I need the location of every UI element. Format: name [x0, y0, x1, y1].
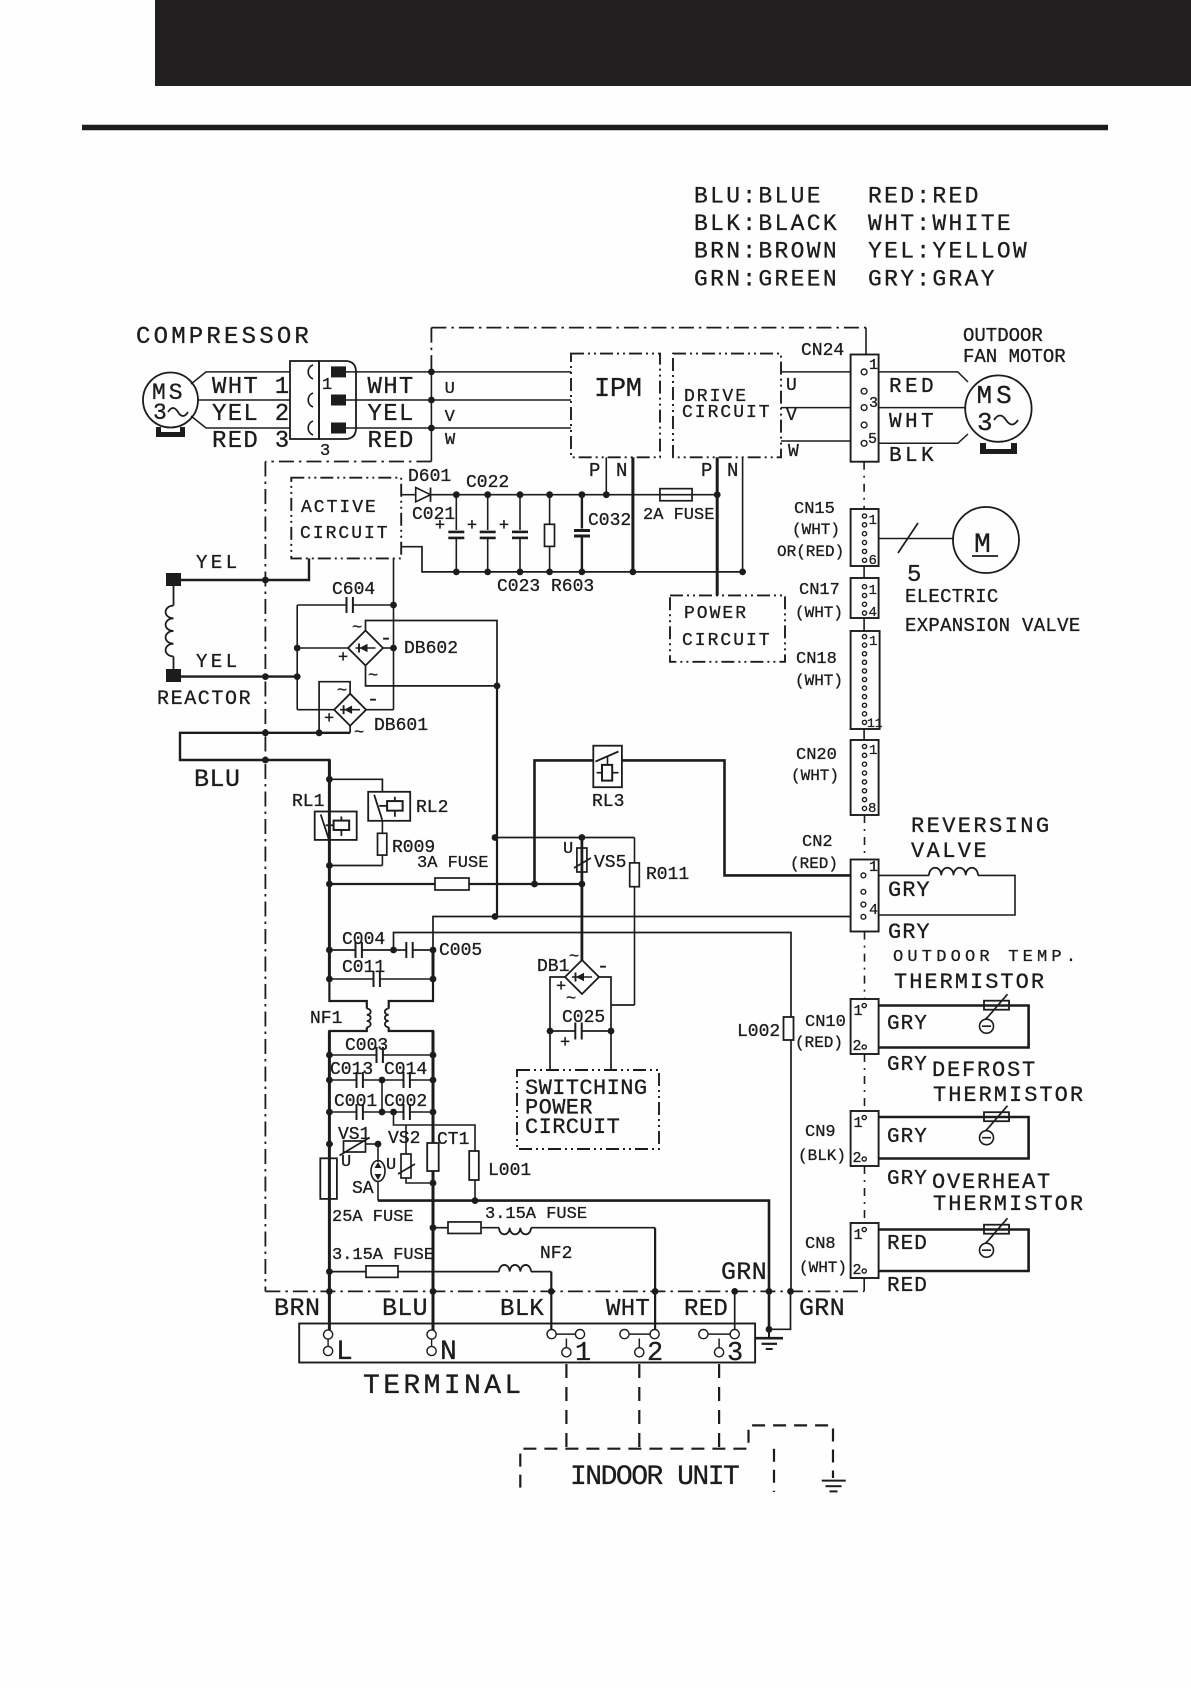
outdoor temp thermistor labels: [893, 948, 1080, 995]
svg-text:1: 1: [869, 357, 878, 374]
wire connector to U node: [346, 371, 571, 373]
svg-text:ELECTRIC: ELECTRIC: [905, 586, 999, 608]
label GRY CN9-1: [887, 1126, 928, 1149]
terminal 2: [620, 1330, 663, 1370]
wire drive to CN24 V: [781, 406, 851, 426]
wire C013/C014 mid drop: [381, 1080, 383, 1112]
capacitor C013: [326, 1060, 385, 1088]
resistor R603: [545, 491, 555, 575]
reactor coil: [166, 586, 174, 669]
diode D601: [401, 467, 455, 525]
svg-text:WHT: WHT: [606, 1296, 650, 1323]
label YEL top: [196, 552, 241, 574]
svg-text:BLK:BLACK: BLK:BLACK: [694, 211, 839, 237]
wire compressor V phase: [198, 399, 290, 401]
svg-text:L002: L002: [737, 1022, 780, 1042]
wire GRN ground drop: [766, 1288, 794, 1333]
svg-text:(RED): (RED): [790, 855, 838, 873]
varistor VS2: [386, 1125, 436, 1186]
svg-text:C021: C021: [412, 505, 455, 525]
capacitor C023 electrolytic: [499, 491, 528, 575]
svg-text:NF1: NF1: [310, 1009, 342, 1029]
svg-text:4: 4: [869, 605, 877, 621]
svg-text:P: P: [701, 460, 712, 482]
svg-text:3A FUSE: 3A FUSE: [417, 854, 488, 873]
svg-text:(RED): (RED): [795, 1034, 843, 1052]
svg-text:1: 1: [854, 1003, 863, 1020]
svg-text:1: 1: [322, 376, 332, 395]
node V: [428, 397, 456, 427]
relay RL1: [292, 792, 357, 840]
label YEL right: [368, 401, 415, 428]
L002 choke: [737, 1017, 794, 1042]
thermistor outdoor temp loop: [879, 994, 1029, 1047]
svg-text:(WHT): (WHT): [795, 672, 843, 690]
connector CN8: [799, 1223, 879, 1279]
svg-text:N: N: [727, 460, 738, 482]
wire CN24 pin1 to fan RED: [879, 372, 968, 382]
svg-text:~: ~: [352, 619, 362, 638]
wire DB1 right vertex to R011: [599, 977, 635, 1070]
svg-text:DEFROST: DEFROST: [932, 1058, 1037, 1083]
terminal 1: [547, 1330, 591, 1370]
label BLU: [194, 765, 241, 794]
wire to CT1/L001 branch: [394, 1112, 476, 1151]
svg-text:1: 1: [869, 859, 878, 876]
wire DB1 left vertex down: [550, 977, 565, 1070]
terminal L: [324, 1330, 353, 1368]
svg-text:3: 3: [153, 400, 167, 426]
svg-text:GRY: GRY: [888, 878, 931, 903]
label WHT: [606, 1296, 650, 1323]
svg-text:IPM: IPM: [594, 375, 642, 405]
boundary outdoor control board (dash-dot): [265, 328, 866, 1292]
svg-text:~: ~: [569, 948, 579, 967]
svg-text:THERMISTOR: THERMISTOR: [933, 1083, 1085, 1108]
wire DB602 top vertex loop: [366, 621, 498, 686]
capacitor C004: [326, 930, 397, 958]
svg-text:C032: C032: [588, 511, 631, 531]
wire IPM N: [630, 457, 637, 575]
wire DB601 top vertex loop: [316, 682, 350, 736]
svg-text:~: ~: [368, 667, 378, 686]
indoor unit dashed box: [520, 1425, 833, 1492]
svg-text:MS: MS: [977, 381, 1016, 411]
svg-text:2: 2: [647, 1339, 663, 1369]
wire DB601 bottom vertex: [349, 726, 351, 733]
svg-text:1: 1: [869, 743, 877, 759]
svg-text:CN20: CN20: [796, 746, 837, 765]
svg-text:+: +: [338, 649, 348, 668]
line filter NF1: [310, 979, 433, 1055]
capacitor C011: [326, 958, 436, 987]
dash-dot link CN20 to CN2: [864, 815, 866, 860]
svg-text:1: 1: [869, 634, 877, 650]
svg-text:GRY: GRY: [887, 1013, 928, 1036]
wire VS5 node top: [492, 834, 635, 841]
svg-text:C013: C013: [330, 1060, 373, 1080]
wire SA bottom rail to ground: [378, 1201, 769, 1330]
dashed wire terminal3 to indoor: [718, 1364, 720, 1449]
motor MS 3~ compressor: [143, 373, 198, 428]
svg-text:3: 3: [320, 442, 330, 461]
wire VS5 vertical: [581, 838, 584, 961]
svg-text:P: P: [589, 460, 600, 482]
label NF2: [540, 1244, 572, 1264]
wire left AC node vertical: [294, 605, 301, 710]
svg-text:+: +: [324, 710, 334, 729]
svg-text:YEL: YEL: [196, 651, 241, 673]
svg-text:C023 R603: C023 R603: [497, 577, 594, 597]
wire RL3 left to 3A fuse line: [535, 760, 594, 884]
svg-text:1: 1: [854, 1227, 863, 1244]
svg-text:~: ~: [337, 682, 347, 701]
capacitor C025: [547, 1008, 615, 1053]
wire compressor W phase: [191, 416, 290, 428]
wire N down: [432, 1228, 435, 1335]
svg-text:V: V: [445, 408, 456, 427]
fuse 2A: [643, 489, 714, 525]
bridge rectifier DB602: [338, 619, 458, 686]
svg-text:U: U: [786, 376, 797, 396]
wire DB601 right vertex: [366, 709, 393, 711]
defrost thermistor labels: [932, 1058, 1085, 1108]
capacitor C032: [574, 491, 631, 575]
reactor terminal top: [166, 573, 181, 586]
label YEL bottom: [196, 651, 241, 673]
ground symbol terminal: [756, 1329, 784, 1349]
svg-text:3: 3: [869, 395, 878, 412]
wire left column main: [432, 950, 435, 1228]
wire relay bus to CN2 pin4: [433, 913, 850, 950]
svg-text:RED: RED: [368, 428, 415, 455]
svg-text:C011: C011: [342, 958, 385, 978]
svg-text:DB1: DB1: [537, 957, 569, 977]
motor MS 3~ fan: [965, 375, 1031, 441]
terminal 3: [699, 1330, 743, 1370]
svg-text:THERMISTOR: THERMISTOR: [933, 1192, 1085, 1217]
svg-text:DB602: DB602: [404, 639, 458, 659]
svg-text:GRY: GRY: [887, 1054, 928, 1077]
svg-text:(BLK): (BLK): [798, 1147, 846, 1165]
fuse 3.15A lower: [326, 1246, 499, 1277]
wire RL1/R009 bottom junction: [326, 862, 382, 869]
svg-text:-: -: [597, 956, 609, 979]
svg-text:RED: RED: [887, 1275, 928, 1298]
wire to terminal 1: [548, 1272, 555, 1335]
svg-text:ACTIVE: ACTIVE: [301, 498, 378, 518]
label TERMINAL: [363, 1371, 525, 1402]
wire drive N: [739, 457, 746, 575]
svg-text:OR(RED): OR(RED): [777, 543, 844, 561]
svg-text:25A FUSE: 25A FUSE: [332, 1208, 414, 1227]
svg-text:GRN: GRN: [799, 1294, 845, 1323]
svg-text:RED 3: RED 3: [212, 428, 291, 455]
svg-text:CN2: CN2: [802, 833, 833, 852]
svg-text:+: +: [467, 517, 477, 536]
svg-text:R011: R011: [646, 865, 689, 885]
current transformer CT1: [427, 1130, 469, 1171]
earth ground symbol indoor: [822, 1481, 846, 1492]
svg-text:REACTOR: REACTOR: [157, 688, 252, 711]
svg-text:RED: RED: [887, 1233, 928, 1256]
connector CN20: [791, 740, 879, 817]
wire IPM P: [603, 457, 610, 498]
svg-text:TERMINAL: TERMINAL: [363, 1371, 525, 1402]
svg-text:(WHT): (WHT): [792, 521, 840, 539]
svg-text:CT1: CT1: [437, 1130, 469, 1150]
resistor R011: [630, 838, 690, 1006]
label RED fan: [889, 376, 937, 399]
label GRY reversing 2: [888, 920, 931, 945]
svg-text:RED: RED: [684, 1296, 728, 1323]
wire terminal3 to boundary: [731, 1288, 738, 1330]
wire node to RL2 top: [326, 776, 382, 792]
label GRY reversing 1: [888, 878, 931, 903]
svg-text:SA: SA: [352, 1179, 374, 1199]
label GRY CN10-2: [887, 1054, 928, 1077]
wire DB602 left vertex: [297, 647, 348, 649]
svg-text:3.15A FUSE: 3.15A FUSE: [332, 1246, 434, 1265]
dash-dot link CN2 to CN10: [864, 932, 866, 999]
svg-text:11: 11: [867, 716, 883, 731]
overheat thermistor labels: [932, 1170, 1085, 1217]
svg-text:C001: C001: [334, 1092, 377, 1112]
capacitor C002: [382, 1092, 436, 1120]
ground frame symbol under compressor: [156, 427, 185, 437]
svg-text:2A FUSE: 2A FUSE: [643, 506, 714, 525]
svg-text:VALVE: VALVE: [911, 839, 989, 864]
svg-text:RL1: RL1: [292, 792, 324, 812]
wire connector to W node: [346, 427, 571, 429]
svg-text:GRY: GRY: [888, 920, 931, 945]
wire L002 to boundary: [790, 1040, 792, 1291]
thermistor overheat loop: [879, 1218, 1029, 1271]
svg-text:3: 3: [977, 408, 993, 438]
electric expansion valve labels: [905, 586, 1081, 637]
svg-text:BLU:BLUE: BLU:BLUE: [694, 184, 823, 210]
svg-text:CN24: CN24: [801, 341, 844, 361]
svg-text:BLU: BLU: [194, 765, 241, 794]
connector CN2: [790, 833, 879, 932]
node U: [428, 369, 455, 400]
svg-text:YEL 2: YEL 2: [212, 401, 291, 428]
svg-text:WHT: WHT: [889, 411, 937, 434]
svg-text:GRY: GRY: [887, 1126, 928, 1149]
IPM block: [571, 354, 660, 458]
line filter NF2 upper coil: [499, 1228, 655, 1235]
reversing valve coil loop: [879, 868, 1015, 915]
svg-text:2: 2: [853, 1038, 862, 1055]
label WHT 1: [212, 374, 291, 401]
label RED CN8-1: [887, 1233, 928, 1256]
label WHT fan: [889, 411, 937, 434]
svg-text:YEL:YELLOW: YEL:YELLOW: [868, 239, 1029, 265]
svg-text:CN9: CN9: [805, 1123, 836, 1142]
connector CN24: [801, 341, 879, 462]
svg-text:3: 3: [727, 1339, 743, 1369]
svg-text:GRN:GREEN: GRN:GREEN: [694, 266, 839, 292]
varistor VS1: [326, 1125, 381, 1172]
terminal N: [427, 1330, 457, 1368]
wire BLU loop left: [180, 729, 350, 779]
dash-dot link CN9 to CN8: [864, 1166, 866, 1222]
bridge rectifier DB601: [324, 682, 428, 743]
switching power circuit block: [517, 1070, 659, 1149]
power circuit block: [670, 595, 785, 661]
wire drive to CN24 W: [781, 441, 851, 462]
svg-text:INDOOR UNIT: INDOOR UNIT: [570, 1462, 739, 1493]
svg-text:CIRCUIT: CIRCUIT: [525, 1115, 620, 1140]
link CN8 to boundary: [863, 1278, 865, 1291]
connector CN15: [777, 500, 879, 569]
connector CN18: [795, 631, 883, 731]
header black banner: [155, 0, 1191, 86]
wire NF2 to terminal 2: [652, 1228, 659, 1334]
label P N under IPM: [589, 460, 627, 482]
wire DB602 output down to VS5 node: [496, 686, 498, 917]
label GRN lower: [799, 1294, 845, 1323]
label WHT right: [368, 374, 415, 401]
svg-text:U: U: [563, 840, 573, 859]
svg-text:THERMISTOR: THERMISTOR: [894, 970, 1046, 995]
svg-text:WHT:WHITE: WHT:WHITE: [868, 211, 1013, 237]
line filter NF2 lower coil: [499, 1265, 551, 1272]
legend colour abbreviations: [694, 184, 1029, 293]
svg-text:-: -: [367, 689, 379, 712]
svg-text:BLU: BLU: [382, 1294, 428, 1323]
wire RL3 right to CN2 pin1: [622, 760, 850, 875]
svg-text:BLK: BLK: [889, 445, 937, 468]
link CN18-CN20: [863, 729, 865, 740]
reactor terminal bottom: [166, 669, 181, 682]
svg-text:C005: C005: [439, 941, 482, 961]
capacitor C022 electrolytic: [467, 491, 496, 575]
svg-text:VS2: VS2: [388, 1129, 420, 1149]
svg-text:RL2: RL2: [416, 798, 448, 818]
outdoor fan motor labels: [963, 325, 1066, 368]
svg-text:CN15: CN15: [794, 500, 835, 519]
svg-text:RED: RED: [889, 376, 937, 399]
svg-text:CN10: CN10: [805, 1013, 846, 1032]
svg-text:CIRCUIT: CIRCUIT: [682, 403, 772, 423]
label RED 3: [212, 428, 291, 455]
dashed wire terminal2 to indoor: [638, 1364, 640, 1449]
svg-text:+: +: [435, 517, 445, 536]
choke L001: [469, 1151, 531, 1204]
bridge rectifier DB1: [537, 948, 609, 1009]
label RED: [684, 1296, 728, 1323]
svg-text:WHT 1: WHT 1: [212, 374, 291, 401]
svg-text:RL3: RL3: [592, 792, 624, 812]
svg-text:C022: C022: [466, 473, 509, 493]
fuse 3.15A upper: [430, 1205, 587, 1233]
compressor terminal connector: [290, 361, 356, 439]
svg-text:CN17: CN17: [799, 581, 840, 600]
svg-text:C004: C004: [342, 930, 385, 950]
capacitor C003: [326, 1036, 436, 1063]
svg-text:CIRCUIT: CIRCUIT: [682, 631, 772, 651]
relay RL2: [368, 792, 448, 821]
svg-text:WHT: WHT: [368, 374, 415, 401]
svg-text:2: 2: [853, 1262, 862, 1279]
label GRY CN9-2: [887, 1168, 928, 1191]
connector CN10: [795, 999, 879, 1055]
capacitor C014: [382, 1060, 436, 1088]
wire CN15 to expansion valve with slash: [879, 523, 953, 589]
svg-text:~: ~: [566, 990, 576, 1009]
wire YEL top to active circuit: [181, 558, 309, 583]
svg-text:OUTDOOR TEMP.: OUTDOOR TEMP.: [893, 948, 1080, 967]
svg-text:3.15A FUSE: 3.15A FUSE: [485, 1205, 587, 1224]
wire drive to CN24 U: [781, 372, 851, 396]
svg-text:6: 6: [869, 553, 877, 569]
svg-text:FAN MOTOR: FAN MOTOR: [963, 346, 1066, 368]
svg-text:+: +: [499, 517, 509, 536]
connector CN9: [798, 1111, 879, 1167]
svg-text:CN18: CN18: [796, 650, 837, 669]
node W: [428, 425, 456, 450]
label C022: [466, 473, 509, 493]
fuse 25A: [320, 1158, 413, 1227]
terminal strip box: [299, 1324, 755, 1363]
label BLU: [382, 1294, 428, 1323]
wire DB602 bottom vertex: [366, 666, 501, 690]
svg-text:N: N: [440, 1337, 457, 1368]
svg-text:YEL: YEL: [368, 401, 415, 428]
svg-text:REVERSING: REVERSING: [911, 814, 1051, 839]
svg-text:1: 1: [869, 583, 877, 599]
surge absorber SA: [352, 1144, 385, 1201]
svg-text:C025: C025: [562, 1008, 605, 1028]
svg-text:POWER: POWER: [684, 604, 748, 624]
drive circuit block: [673, 354, 781, 458]
svg-text:BRN: BRN: [274, 1294, 321, 1323]
label C023 R603: [497, 577, 594, 597]
relay RL3: [592, 746, 624, 812]
label BLK fan: [889, 445, 937, 468]
wire DB602 right vertex: [383, 647, 394, 649]
label BRN: [274, 1294, 321, 1323]
label pin 3 under connector: [320, 442, 330, 461]
svg-text:D601: D601: [408, 467, 451, 487]
svg-text:C002: C002: [384, 1092, 427, 1112]
label GRN upper: [721, 1258, 767, 1287]
thermistor defrost loop: [879, 1106, 1029, 1159]
svg-text:W: W: [445, 431, 456, 450]
svg-text:V: V: [786, 406, 797, 426]
label YEL 2: [212, 401, 291, 428]
motor M electric expansion valve: [953, 507, 1019, 573]
reversing valve labels: [911, 814, 1051, 864]
svg-text:+: +: [556, 978, 566, 997]
svg-text:YEL: YEL: [196, 552, 241, 574]
wire DC plus bus: [431, 494, 718, 496]
svg-text:+: +: [560, 1034, 570, 1053]
wire compressor U phase: [191, 372, 290, 384]
label GRY CN10-1: [887, 1013, 928, 1036]
link CN15-CN17: [863, 566, 865, 578]
svg-text:(WHT): (WHT): [791, 767, 839, 785]
svg-text:1: 1: [575, 1339, 591, 1369]
wire CN24 pin5 to fan BLK: [879, 434, 968, 443]
capacitor C021 electrolytic: [435, 491, 464, 575]
dash-dot link CN10 to CN9: [864, 1054, 866, 1110]
link CN17-CN18: [863, 618, 865, 631]
connector CN17: [795, 578, 879, 622]
wire connector to V node: [346, 399, 571, 401]
svg-text:EXPANSION VALVE: EXPANSION VALVE: [905, 615, 1081, 637]
